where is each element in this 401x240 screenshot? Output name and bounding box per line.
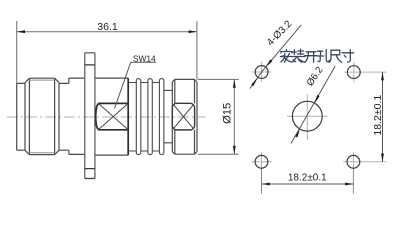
svg-text:18.2±0.1: 18.2±0.1 [288,173,327,184]
label 尺 of mounting-hole note [329,50,341,62]
arrowhead upper of 4-Ø3.2 [266,59,273,67]
label 寸 of mounting-hole note [342,50,354,62]
label 装 of mounting-hole note [292,49,305,62]
dimension line right 18.2±0.1 [382,72,384,162]
svg-text:18.2±0.1: 18.2±0.1 [372,95,384,136]
valley lines between fins [128,83,159,152]
N interface rear cylinder outline [17,83,25,150]
SW14 flats left cylindrical arc [96,104,99,130]
body cylinder before flange [69,78,85,154]
SW14 flats cross diagonals [98,103,128,129]
label 孔 of mounting-hole note [317,50,329,62]
mounting hole bottom-right [347,155,360,168]
label 安 of mounting-hole note [280,50,292,63]
dimension line 36.1 [17,31,197,33]
center marks of bottom-right mounting hole with extension line [343,152,386,170]
arrowhead upper of Ø6.2 [315,95,320,103]
coupling hex nut outline [25,78,59,154]
mounting hole top-left [255,66,268,79]
center marks of bottom-left mounting hole [251,152,271,170]
arrowhead top of dimension Ø15 [233,79,236,87]
fin 3 [159,79,164,155]
SW14 wrench flats box [98,78,128,155]
svg-text:Ø15: Ø15 [222,103,234,124]
leader line of SW14 label [115,62,157,108]
fin 1 [136,79,141,155]
arrowhead bottom of right dimension [381,154,384,162]
SMA nut wrench flats box [172,103,194,130]
body cylinder after flange [95,78,128,155]
arrowhead right of bottom dimension [345,183,353,186]
arrowhead left of bottom dimension [262,183,270,186]
leader line of Ø6.2 [291,66,335,144]
extension line left of dimension 36.1 [16,21,18,83]
extension line top of dimension Ø15 [198,78,239,80]
extension line bottom of dimension Ø15 [198,153,239,155]
arrowhead right of dimension 36.1 [189,30,197,33]
SMA flats cross diagonals [173,105,193,129]
dimension line bottom 18.2±0.1 [262,183,354,185]
center marks of top-left mounting hole [252,62,272,82]
svg-text:36.1: 36.1 [97,21,118,33]
relief groove behind hex nut [59,78,69,154]
center marks of central hole [287,94,327,140]
mounting flange plate side profile [85,53,95,179]
center marks of top-right mounting hole with extension line [344,62,387,82]
centerline of adapter axis [7,116,206,118]
central clearance hole Ø6.2 [292,101,322,131]
arrowhead lower of 4-Ø3.2 [251,77,258,86]
deep groove before SMA nut [164,90,172,142]
arrowhead top of right dimension [381,72,384,80]
hex nut chamfer tangent lines [29,80,54,153]
leader line of 4-Ø3.2 [250,25,301,89]
extension line right of dimension 36.1 [196,21,198,79]
mounting hole top-right [347,66,360,79]
arrowhead left of dimension 36.1 [17,30,25,33]
arrowhead bottom of dimension Ø15 [233,146,236,154]
mounting hole bottom-left [255,155,268,168]
label 开 of mounting-hole note [305,52,317,62]
fin 2 [148,79,152,155]
extension lines of bottom dimension [262,169,354,194]
dimension line Ø15 [233,79,235,154]
arrowhead lower of Ø6.2 [295,129,300,137]
SMA coupling nut outline [172,79,197,154]
flange foot cap and corner hole lines [85,65,95,179]
